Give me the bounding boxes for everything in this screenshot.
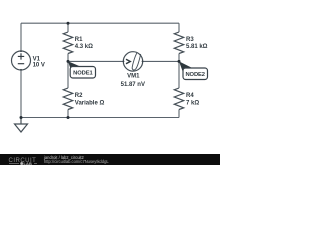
node NODE2 label flag (179, 61, 208, 79)
svg-text:http://circuitlab.com/c7NuseyI: http://circuitlab.com/c7NuseyIkddgL (44, 159, 109, 164)
wire top (21,23.2)-(179,23.2) (21, 22, 179, 24)
wire bottom (21,117.5)-(179,117.5) (21, 117, 179, 119)
node NODE1 junction dot (67, 60, 70, 63)
ground (15, 118, 28, 133)
resistor R3 (174, 32, 207, 54)
footer bar (0, 154, 222, 166)
svg-text:NODE2: NODE2 (185, 72, 204, 78)
node B junction dot (bottom of R2 branch) (67, 116, 70, 119)
wire left branch: R1 bottom through NODE1 to R2 top (67, 54, 69, 89)
terminal nub VM1 right (142, 61, 144, 63)
wire right: R4 bottom to bottom rail (178, 110, 180, 118)
svg-text:10 V: 10 V (33, 62, 45, 68)
svg-text:R3: R3 (186, 37, 194, 43)
voltmeter VM1 (121, 52, 145, 88)
footer CircuitLab logo (9, 158, 38, 166)
svg-text:✺LAB: ✺LAB (20, 161, 32, 165)
wire left branch: R2 bottom to bottom rail (67, 110, 69, 118)
wire left: top corner down to V1 (20, 23, 22, 51)
resistor R1 (63, 32, 93, 54)
svg-text:51.87 nV: 51.87 nV (121, 82, 145, 88)
wire left branch: top rail to R1 (67, 23, 69, 32)
svg-text:R1: R1 (75, 37, 83, 43)
wire middle right: VM1 to NODE2 (143, 60, 179, 62)
svg-text:VM1: VM1 (127, 74, 140, 80)
wire right: top corner down to R3 (178, 23, 180, 32)
svg-text:NODE1: NODE1 (73, 71, 93, 77)
node A junction dot (top of R1 branch) (67, 22, 70, 25)
node NODE2 junction dot (178, 60, 181, 63)
node ground junction dot (20, 116, 23, 119)
terminal nub VM1 left (123, 61, 125, 63)
terminal nub V1 top (20, 50, 22, 52)
wire left: V1 bottom to bottom rail (20, 70, 22, 118)
wire middle left: NODE1 to VM1 (68, 60, 123, 62)
svg-text:Variable Ω: Variable Ω (75, 100, 105, 106)
svg-text:R4: R4 (186, 93, 194, 99)
resistor R2 (63, 88, 104, 110)
svg-text:5.81 kΩ: 5.81 kΩ (186, 44, 208, 50)
svg-text:7 kΩ: 7 kΩ (186, 100, 199, 106)
node NODE1 label flag (68, 61, 96, 78)
voltage source V1 (12, 51, 45, 70)
resistor R4 (174, 88, 199, 110)
wire right: R3 bottom through NODE2 to R4 top (178, 54, 180, 89)
svg-text:4.3 kΩ: 4.3 kΩ (75, 44, 93, 50)
svg-text:R2: R2 (75, 93, 83, 99)
terminal nub V1 bottom (20, 69, 22, 71)
